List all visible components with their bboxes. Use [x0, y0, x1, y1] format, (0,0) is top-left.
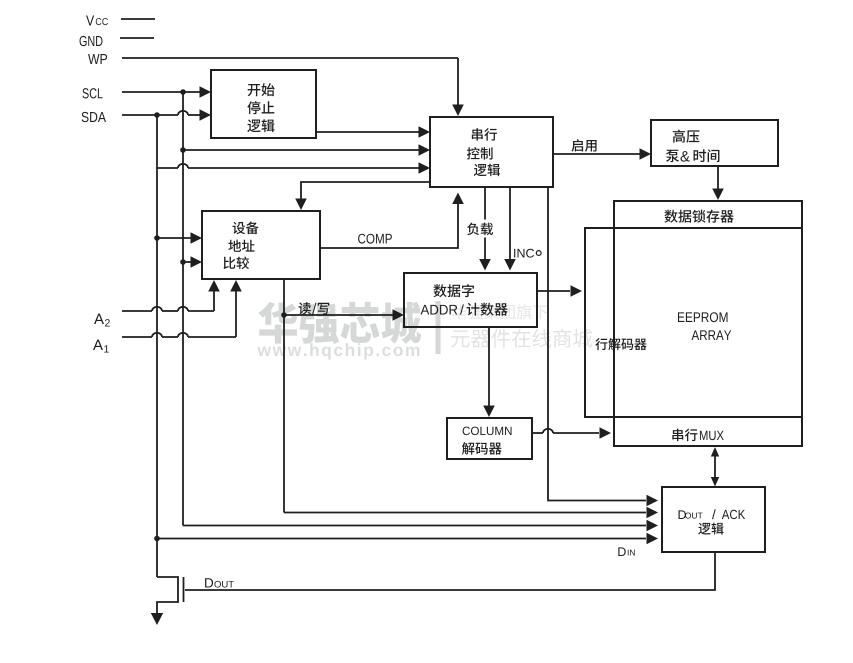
block EEPROM array	[585, 228, 802, 417]
wire SDA to serial control (hop over SCL)	[157, 162, 430, 174]
label DOUT	[205, 578, 234, 587]
wire R/W down to Dout/ACK logic	[283, 315, 285, 513]
junction SCL to comparator	[180, 259, 186, 265]
block 高压泵&时间 (HV pump & timing)	[651, 120, 778, 166]
wire SCL to Dout/ACK	[183, 520, 658, 532]
pin label SDA	[82, 112, 106, 122]
junction SDA to comparator	[154, 235, 160, 241]
wire Dout/ACK to output transistor gate	[185, 552, 715, 590]
pin label WP	[88, 54, 107, 64]
label COMP	[358, 234, 392, 244]
wire SCL vertical bus	[182, 92, 184, 526]
wire A1 to device address compare (hops over SDA,SCL)	[122, 280, 242, 337]
junction R/W	[281, 312, 287, 318]
wire VCC stub	[121, 18, 155, 20]
wire serial control to Dout/ACK logic	[548, 187, 658, 506]
label 行解码器 (row decoder)	[595, 338, 646, 350]
wire HV pump to data latch	[712, 166, 724, 200]
watermark url www.hqchip.com	[257, 343, 419, 359]
label INC	[514, 249, 541, 258]
pin label VCC	[86, 16, 108, 26]
wire INC to data word counter	[504, 187, 516, 271]
junction SCL	[180, 89, 186, 95]
block outer (data latch + serial mux frame)	[614, 201, 802, 446]
wire COMP comparator to serial control	[320, 193, 464, 249]
block 串行控制逻辑 (serial control logic)	[430, 117, 553, 187]
watermark text 元器件在线商城	[451, 329, 592, 348]
wire SCL to comparator	[183, 256, 202, 268]
block 开始停止逻辑 (start/stop logic)	[211, 70, 316, 138]
wire comparator to R/W node	[283, 279, 285, 315]
junction SDA bottom	[154, 536, 160, 542]
pin label SCL	[82, 88, 102, 98]
watermark big text 华强芯城	[258, 301, 421, 344]
watermark text 华强集团旗下	[452, 304, 548, 319]
block COLUMN解码器 (column decoder)	[447, 418, 532, 459]
wire SDA to comparator	[157, 232, 202, 244]
wire SDA to start/stop logic (hop over SCL drop)	[122, 109, 211, 121]
wire WP to serial control	[122, 58, 464, 116]
label 读/写 (read/write)	[298, 302, 329, 316]
junction SDA	[154, 112, 160, 118]
label EEPROM	[678, 312, 728, 322]
block DOUT/ACK 逻辑 (Dout/ACK logic)	[662, 487, 765, 552]
transistor Q1 gate bar	[183, 577, 185, 602]
wire counter to EEPROM array	[537, 285, 582, 297]
label ARRAY	[692, 330, 732, 340]
wire serial control to device address compare	[295, 182, 431, 210]
wire A2 to device address compare (hops over SDA,SCL)	[122, 280, 220, 311]
wire column decoder to serial mux (hop)	[532, 427, 611, 439]
wire start/stop logic to serial control	[316, 126, 430, 138]
wire counter to column decoder	[483, 327, 495, 417]
wire R/W to Dout/ACK	[284, 507, 658, 519]
wire R/W to data word counter	[284, 309, 404, 321]
wire SDA vertical bus	[156, 115, 158, 577]
ground arrow	[151, 613, 163, 625]
transistor Q1 drain/source (open drain output)	[157, 577, 178, 613]
wire serial mux to Dout/ACK (double arrow)	[711, 447, 719, 487]
block 数据字ADDR/计数器 (data word address counter)	[404, 273, 537, 327]
wire SCL to serial control	[183, 144, 430, 156]
wire serial control to HV pump	[552, 148, 651, 160]
label 负载 (load)	[467, 223, 493, 236]
label 启用 (enable)	[571, 139, 596, 152]
label DIN	[618, 547, 634, 556]
wire SCL to start/stop logic	[122, 86, 211, 98]
label 串行MUX (serial mux)	[672, 429, 723, 442]
block 设备地址比较 (device address comparator)	[202, 211, 320, 279]
pin label A2	[94, 314, 110, 327]
wire SDA to Dout/ACK	[157, 533, 658, 545]
wire GND stub	[120, 37, 154, 39]
pin label GND	[80, 36, 103, 46]
wire load to data word counter	[479, 187, 491, 271]
watermark divider bar	[436, 301, 441, 354]
label 数据锁存器 (data latch)	[664, 210, 733, 223]
pin label A1	[93, 340, 109, 353]
junction SCL branch	[180, 147, 186, 153]
